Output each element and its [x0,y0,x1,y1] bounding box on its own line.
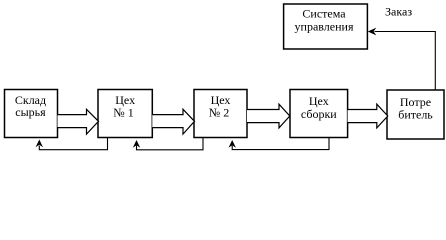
svg-text:управления: управления [295,20,354,34]
svg-text:Цех: Цех [309,94,329,108]
svg-text:сборки: сборки [301,107,337,121]
svg-text:сырья: сырья [15,105,46,119]
svg-text:№ 1: № 1 [113,106,133,120]
svg-text:Система: Система [302,7,346,21]
svg-text:битель: битель [398,108,433,122]
svg-text:Заказ: Заказ [385,5,412,19]
svg-text:№ 2: № 2 [209,106,229,120]
